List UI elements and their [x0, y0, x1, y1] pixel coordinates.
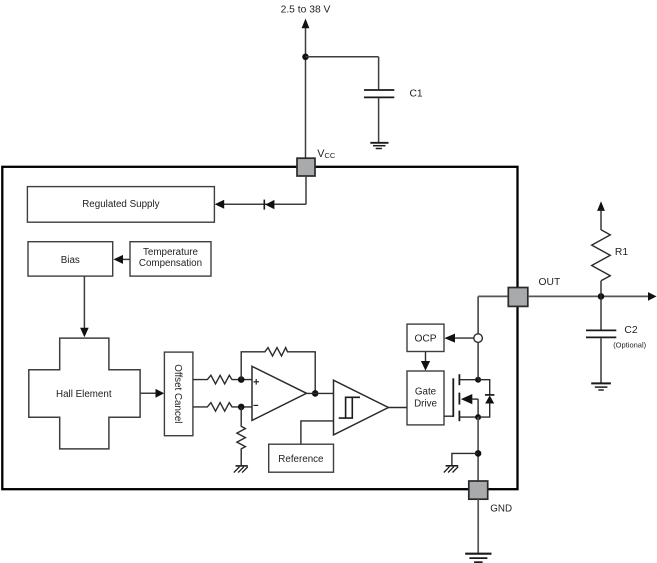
svg-text:Reference: Reference: [278, 454, 324, 465]
svg-text:R1: R1: [615, 247, 628, 258]
svg-text:Offset Cancel: Offset Cancel: [172, 364, 183, 423]
svg-text:GND: GND: [490, 503, 512, 514]
svg-text:Bias: Bias: [61, 255, 80, 266]
svg-text:Temperature: Temperature: [143, 247, 199, 258]
svg-text:VCC: VCC: [317, 148, 336, 160]
svg-text:OUT: OUT: [539, 277, 561, 288]
svg-text:2.5 to 38 V: 2.5 to 38 V: [281, 5, 331, 16]
svg-text:Regulated Supply: Regulated Supply: [82, 199, 159, 210]
svg-text:Gate: Gate: [415, 387, 437, 398]
svg-text:C2: C2: [624, 325, 637, 336]
svg-text:Hall Element: Hall Element: [56, 389, 112, 400]
svg-text:(Optional): (Optional): [613, 341, 646, 350]
svg-text:Drive: Drive: [414, 399, 437, 410]
svg-text:OCP: OCP: [414, 334, 436, 345]
svg-text:C1: C1: [410, 89, 423, 100]
svg-text:Compensation: Compensation: [139, 258, 202, 269]
